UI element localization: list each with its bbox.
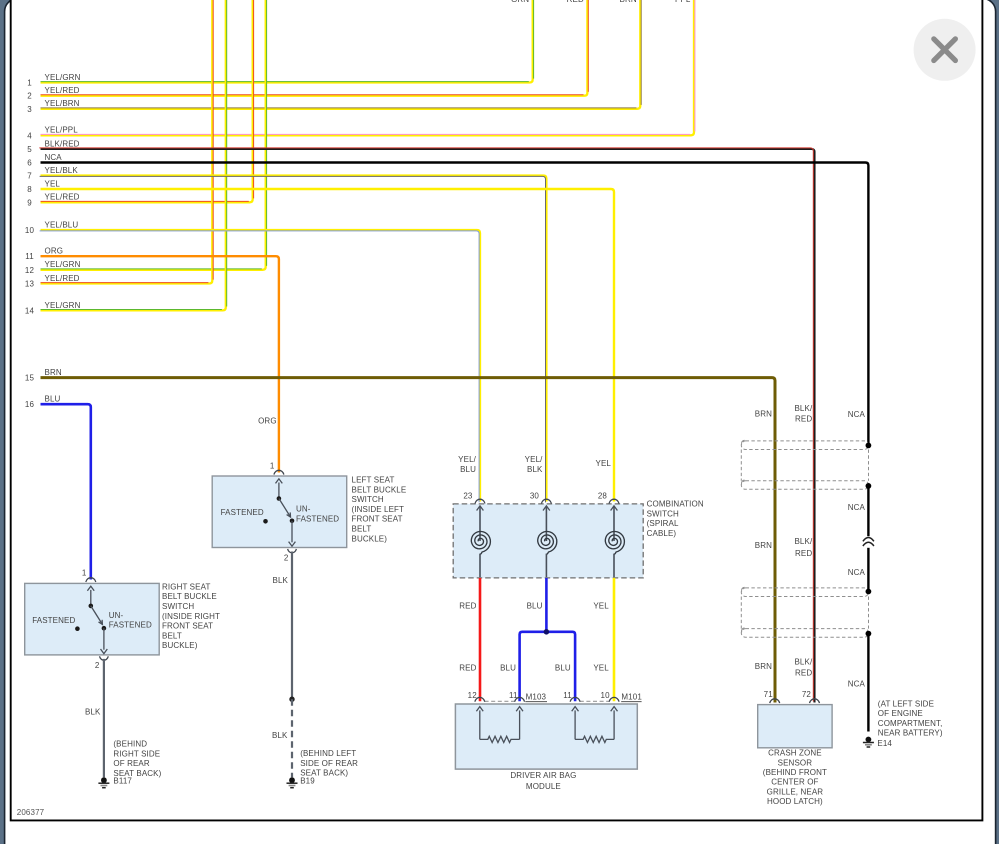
- svg-text:10: 10: [601, 691, 611, 700]
- svg-text:YEL/GRN: YEL/GRN: [45, 260, 81, 269]
- svg-text:10: 10: [25, 226, 35, 235]
- svg-text:BLU: BLU: [555, 663, 571, 672]
- svg-text:SWITCH: SWITCH: [352, 495, 384, 504]
- svg-text:5: 5: [27, 145, 32, 154]
- svg-text:BRN: BRN: [620, 0, 637, 4]
- svg-text:1: 1: [27, 79, 32, 88]
- svg-text:YEL: YEL: [593, 601, 609, 610]
- svg-text:CENTER OF: CENTER OF: [771, 778, 818, 787]
- svg-text:11: 11: [509, 691, 518, 700]
- svg-text:B19: B19: [300, 777, 315, 786]
- svg-text:COMPARTMENT,: COMPARTMENT,: [878, 719, 943, 728]
- svg-text:BELT BUCKLE: BELT BUCKLE: [162, 592, 217, 601]
- svg-text:BLK: BLK: [85, 707, 101, 716]
- svg-text:CRASH ZONE: CRASH ZONE: [768, 749, 822, 758]
- svg-text:YEL/BLK: YEL/BLK: [45, 166, 79, 175]
- svg-text:YEL/: YEL/: [458, 455, 476, 464]
- svg-text:1: 1: [82, 569, 87, 578]
- svg-text:72: 72: [802, 690, 812, 699]
- svg-text:SENSOR: SENSOR: [778, 758, 813, 767]
- svg-text:BRN: BRN: [755, 541, 772, 550]
- svg-text:9: 9: [27, 198, 32, 207]
- svg-text:16: 16: [25, 400, 35, 409]
- svg-text:YEL/RED: YEL/RED: [45, 86, 80, 95]
- svg-text:2: 2: [95, 661, 100, 670]
- svg-text:B117: B117: [113, 777, 132, 786]
- svg-text:BRN: BRN: [755, 662, 772, 671]
- svg-text:BLU: BLU: [527, 601, 543, 610]
- svg-text:SIDE OF REAR: SIDE OF REAR: [300, 759, 358, 768]
- svg-text:(BEHIND LEFT: (BEHIND LEFT: [300, 749, 356, 758]
- svg-text:COMBINATION: COMBINATION: [647, 500, 704, 509]
- svg-text:RED: RED: [459, 601, 476, 610]
- svg-text:NCA: NCA: [848, 410, 866, 419]
- svg-text:UN-: UN-: [109, 611, 124, 620]
- svg-text:YEL/RED: YEL/RED: [45, 274, 80, 283]
- svg-text:YEL/PPL: YEL/PPL: [45, 126, 79, 135]
- svg-text:BELT: BELT: [352, 525, 372, 534]
- svg-text:BLU: BLU: [460, 465, 476, 474]
- svg-text:(INSIDE RIGHT: (INSIDE RIGHT: [162, 612, 220, 621]
- svg-text:GRILLE, NEAR: GRILLE, NEAR: [767, 787, 824, 796]
- svg-text:LEFT SEAT: LEFT SEAT: [352, 476, 395, 485]
- svg-text:23: 23: [463, 491, 473, 500]
- svg-text:7: 7: [27, 172, 32, 181]
- svg-text:BLK/: BLK/: [794, 537, 812, 546]
- svg-text:RIGHT SEAT: RIGHT SEAT: [162, 582, 210, 591]
- svg-text:3: 3: [27, 105, 32, 114]
- svg-text:RIGHT SIDE: RIGHT SIDE: [113, 749, 160, 758]
- svg-text:BLU: BLU: [45, 395, 61, 404]
- svg-text:BLK/: BLK/: [794, 404, 812, 413]
- svg-text:206377: 206377: [17, 808, 45, 817]
- svg-text:ORG: ORG: [258, 417, 277, 426]
- svg-text:DRIVER AIR BAG: DRIVER AIR BAG: [510, 771, 576, 780]
- svg-text:MODULE: MODULE: [526, 782, 561, 791]
- svg-text:NCA: NCA: [848, 680, 866, 689]
- svg-text:NEAR BATTERY): NEAR BATTERY): [878, 729, 943, 738]
- svg-text:FASTENED: FASTENED: [221, 508, 264, 517]
- svg-text:30: 30: [530, 491, 540, 500]
- svg-text:BRN: BRN: [45, 368, 62, 377]
- svg-text:YEL/BRN: YEL/BRN: [45, 99, 80, 108]
- svg-text:YEL: YEL: [596, 459, 612, 468]
- svg-text:BELT BUCKLE: BELT BUCKLE: [352, 485, 407, 494]
- svg-text:GRN: GRN: [511, 0, 529, 4]
- svg-text:28: 28: [598, 491, 608, 500]
- svg-text:RED: RED: [795, 669, 812, 678]
- svg-text:(INSIDE LEFT: (INSIDE LEFT: [352, 505, 405, 514]
- svg-text:PPL: PPL: [675, 0, 691, 4]
- svg-text:BLK: BLK: [273, 576, 289, 585]
- svg-text:NCA: NCA: [848, 503, 866, 512]
- svg-text:M103: M103: [526, 693, 547, 702]
- svg-text:BLK/RED: BLK/RED: [45, 139, 80, 148]
- svg-text:(BEHIND FRONT: (BEHIND FRONT: [763, 768, 827, 777]
- svg-text:RED: RED: [795, 549, 812, 558]
- svg-text:(SPIRAL: (SPIRAL: [647, 519, 679, 528]
- svg-text:BUCKLE): BUCKLE): [352, 534, 388, 543]
- svg-text:YEL/GRN: YEL/GRN: [45, 301, 81, 310]
- svg-text:YEL/GRN: YEL/GRN: [45, 73, 81, 82]
- svg-text:14: 14: [25, 306, 35, 315]
- svg-text:2: 2: [27, 92, 32, 101]
- svg-text:YEL: YEL: [45, 179, 61, 188]
- svg-text:ORG: ORG: [45, 247, 64, 256]
- svg-text:71: 71: [764, 690, 774, 699]
- svg-text:YEL/: YEL/: [525, 455, 543, 464]
- svg-text:(BEHIND: (BEHIND: [113, 740, 147, 749]
- svg-text:YEL/RED: YEL/RED: [45, 193, 80, 202]
- svg-text:RED: RED: [795, 415, 812, 424]
- svg-text:OF ENGINE: OF ENGINE: [878, 709, 923, 718]
- svg-text:E14: E14: [877, 739, 892, 748]
- svg-text:UN-: UN-: [296, 505, 311, 514]
- svg-text:1: 1: [270, 461, 275, 470]
- svg-text:15: 15: [25, 374, 35, 383]
- svg-text:OF REAR: OF REAR: [113, 759, 150, 768]
- svg-text:SWITCH: SWITCH: [647, 509, 679, 518]
- svg-text:BLU: BLU: [500, 663, 516, 672]
- svg-text:FRONT SEAT: FRONT SEAT: [162, 622, 213, 631]
- svg-text:13: 13: [25, 280, 35, 289]
- svg-text:FRONT SEAT: FRONT SEAT: [352, 515, 403, 524]
- svg-text:11: 11: [563, 691, 572, 700]
- svg-text:BUCKLE): BUCKLE): [162, 641, 198, 650]
- svg-text:RED: RED: [567, 0, 584, 4]
- svg-text:11: 11: [25, 252, 34, 261]
- svg-text:12: 12: [25, 266, 35, 275]
- svg-text:FASTENED: FASTENED: [296, 514, 339, 523]
- svg-text:RED: RED: [459, 663, 476, 672]
- svg-text:6: 6: [27, 159, 32, 168]
- svg-text:BELT: BELT: [162, 631, 182, 640]
- svg-text:BLK: BLK: [272, 731, 288, 740]
- svg-text:2: 2: [284, 553, 289, 562]
- svg-text:CABLE): CABLE): [647, 529, 677, 538]
- svg-text:4: 4: [27, 131, 32, 140]
- svg-text:(AT LEFT SIDE: (AT LEFT SIDE: [878, 699, 934, 708]
- svg-text:NCA: NCA: [848, 568, 866, 577]
- svg-text:BLK/: BLK/: [794, 657, 812, 666]
- svg-text:12: 12: [468, 691, 478, 700]
- svg-text:HOOD LATCH): HOOD LATCH): [767, 797, 823, 806]
- svg-text:FASTENED: FASTENED: [109, 621, 152, 630]
- svg-text:BRN: BRN: [755, 410, 772, 419]
- svg-text:NCA: NCA: [45, 153, 63, 162]
- svg-text:FASTENED: FASTENED: [32, 616, 75, 625]
- svg-text:8: 8: [27, 185, 32, 194]
- svg-text:SWITCH: SWITCH: [162, 602, 194, 611]
- svg-text:YEL/BLU: YEL/BLU: [45, 220, 79, 229]
- svg-text:M101: M101: [621, 693, 642, 702]
- svg-text:YEL: YEL: [593, 663, 609, 672]
- svg-text:BLK: BLK: [527, 465, 543, 474]
